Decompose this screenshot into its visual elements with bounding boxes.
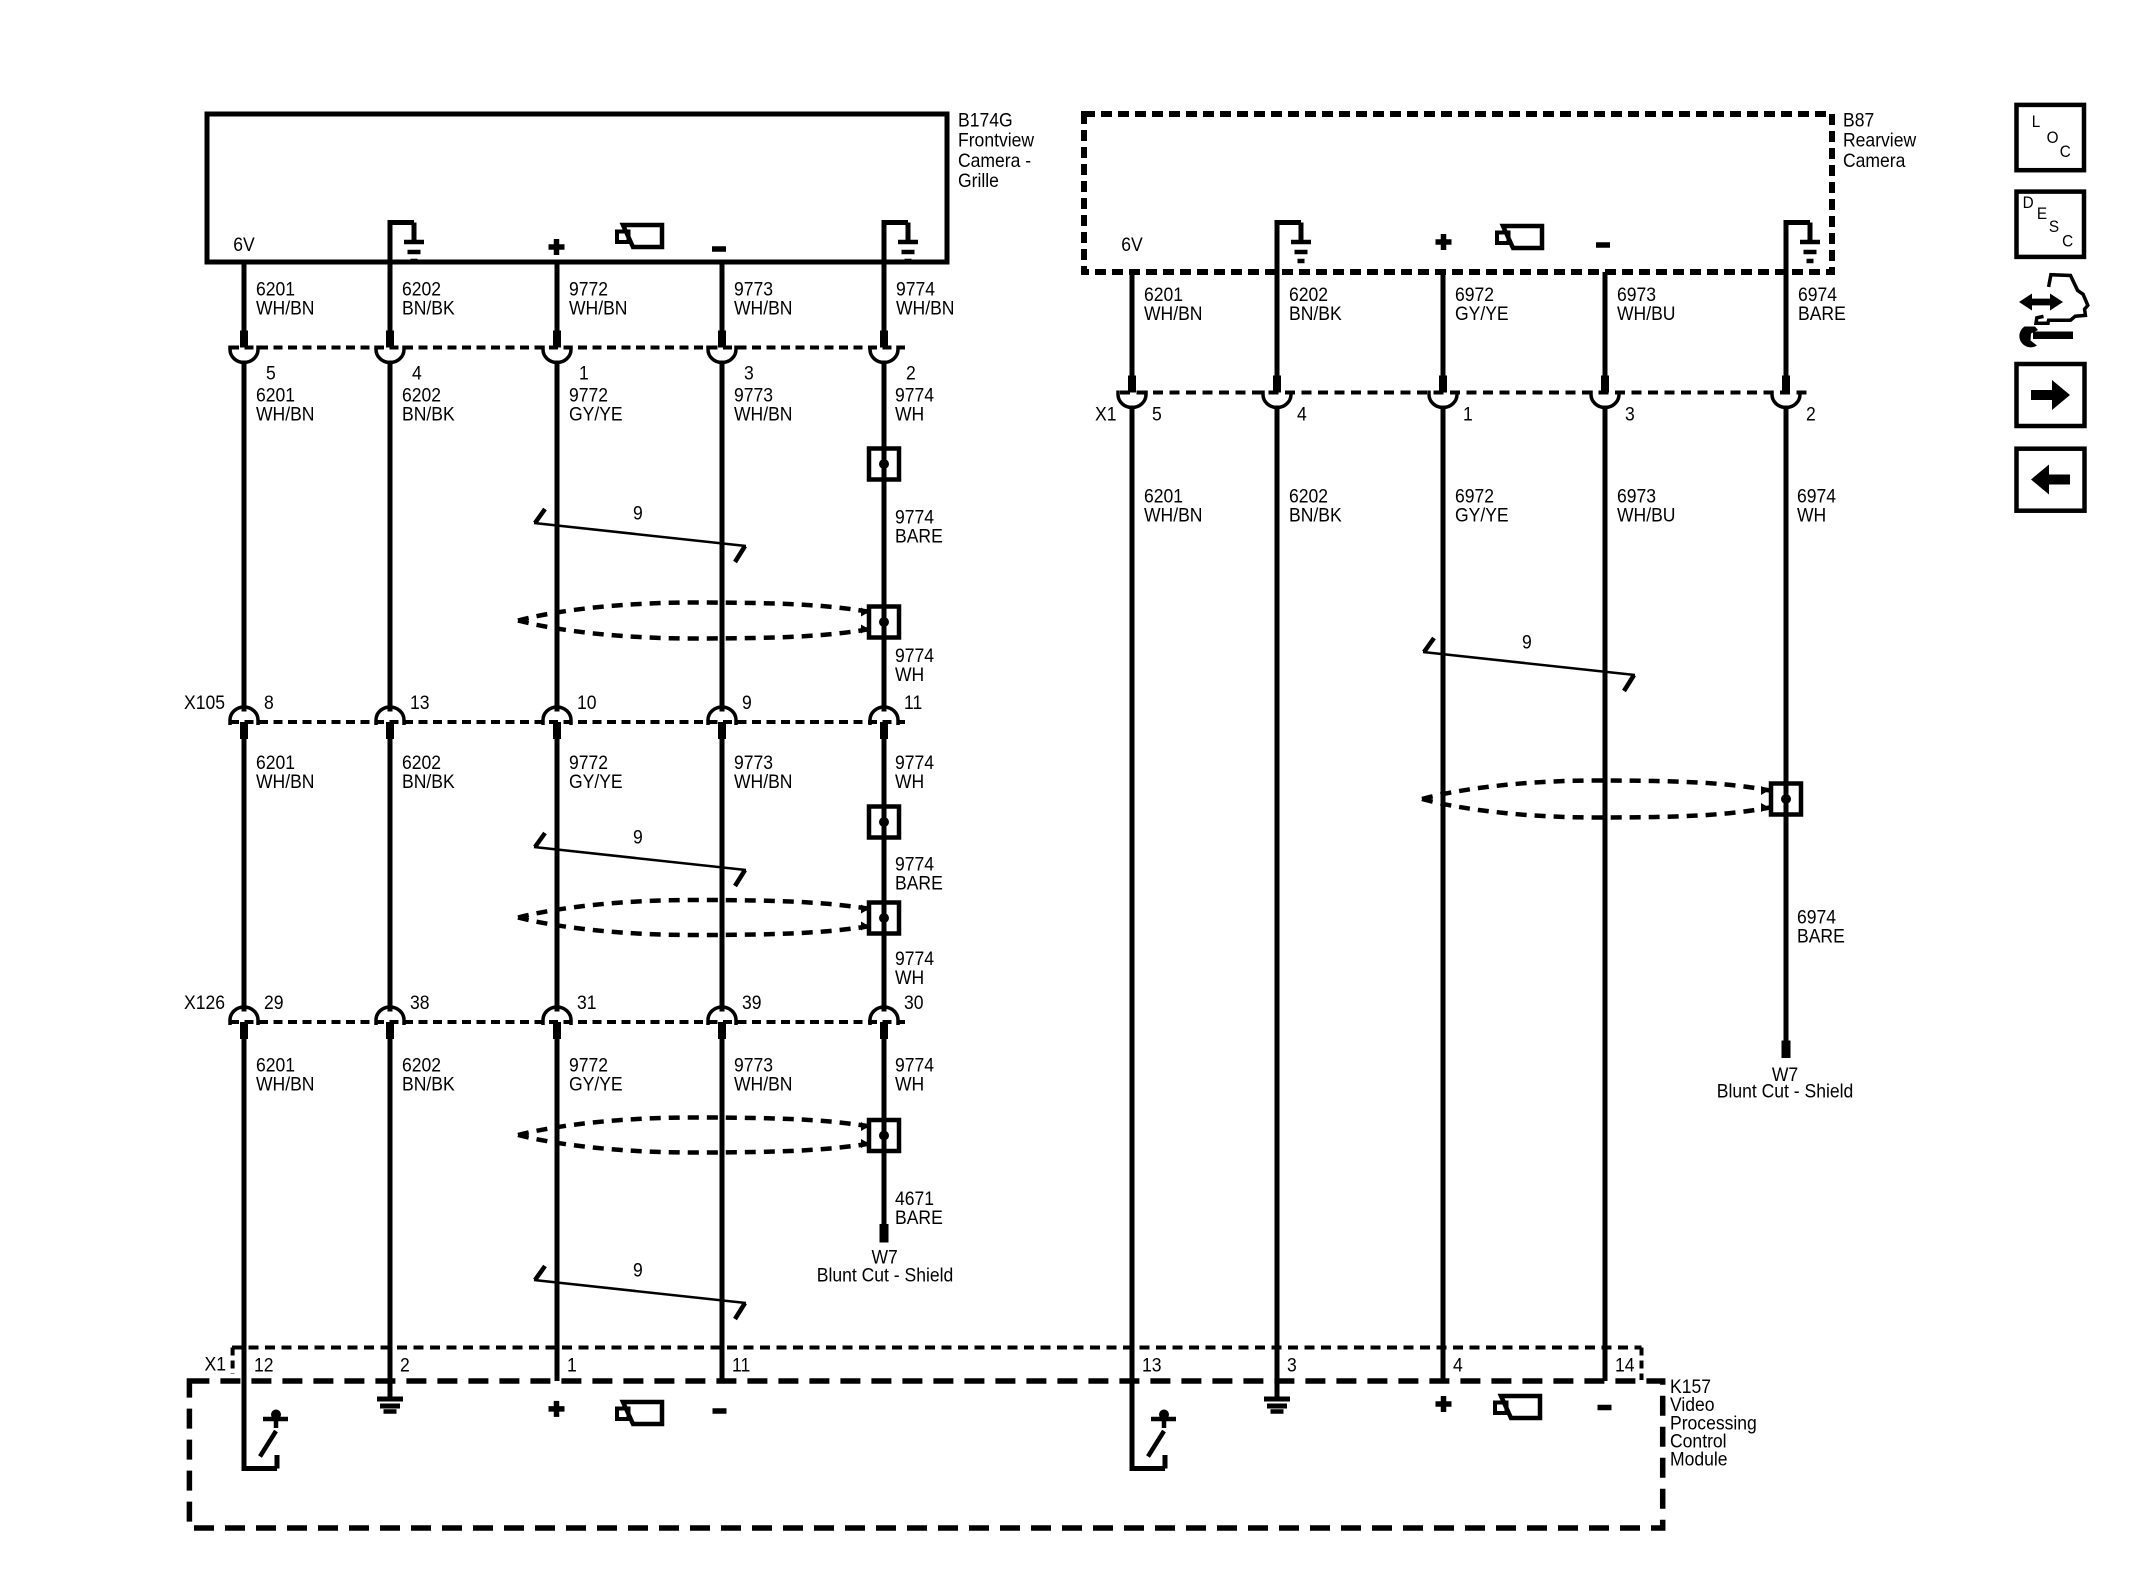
wire label 6202 BN/BK (below X126) xyxy=(402,1053,455,1094)
svg-text:11: 11 xyxy=(904,691,922,713)
wire 6974 WH shield drain below X1 xyxy=(1784,406,1789,1041)
wire label 9773 WH/BN (below pigtail connector) xyxy=(734,384,792,425)
wire 6972 GY/YE X1 to K157 xyxy=(1441,406,1446,1382)
svg-text:11: 11 xyxy=(732,1354,750,1376)
shield termination symbol on 9774 (upper) xyxy=(869,449,899,480)
wire 9774 WH shield drain to X105 xyxy=(882,361,887,712)
connector socket pin 29 (X126) xyxy=(230,1007,258,1039)
connector socket pin 5 (pigtail row) xyxy=(230,346,258,363)
svg-text:X105: X105 xyxy=(184,691,225,713)
svg-text:O: O xyxy=(2047,128,2059,147)
wire label 9774 WH (above X126) xyxy=(895,947,934,988)
svg-text:4: 4 xyxy=(412,362,422,384)
pin label - (module left) xyxy=(713,1408,727,1414)
shield termination symbol on 6974 xyxy=(1771,784,1801,815)
pin number 9 (X105) xyxy=(742,691,752,713)
wire 6202 BN/BK B87 to X1 xyxy=(1275,272,1280,393)
svg-text:C: C xyxy=(2062,232,2073,251)
pin number 14 (module X1) xyxy=(1615,1354,1635,1376)
wire label 9773 WH/BN (below X126) xyxy=(734,1053,792,1094)
svg-text:WH/BN: WH/BN xyxy=(734,770,792,792)
svg-text:GY/YE: GY/YE xyxy=(569,770,623,792)
svg-text:3: 3 xyxy=(744,362,754,384)
pin number 3 (camera X1) xyxy=(1625,403,1635,425)
pin number 11 (module X1) xyxy=(732,1354,750,1376)
svg-text:D: D xyxy=(2023,193,2034,212)
svg-text:30: 30 xyxy=(904,991,924,1013)
shield termination symbol on 9774 (in middle loop) xyxy=(869,903,899,934)
pin number 3 (pigtail row) xyxy=(744,362,754,384)
svg-text:3: 3 xyxy=(1287,1354,1297,1376)
svg-text:BARE: BARE xyxy=(1798,302,1846,324)
camera icon inside module (right) xyxy=(1495,1396,1540,1418)
wire label 9774 BARE (below upper shield symbol) xyxy=(895,506,943,547)
svg-text:Blunt Cut - Shield: Blunt Cut - Shield xyxy=(817,1264,954,1286)
wire 6201 WH/BN to X105 xyxy=(242,361,247,712)
svg-text:WH/BN: WH/BN xyxy=(896,296,954,318)
ground symbol inside module (pin 2) xyxy=(377,1381,403,1412)
wire 9774 WH shield drain X105 to X126 xyxy=(882,739,887,1012)
svg-text:2: 2 xyxy=(1806,403,1816,425)
svg-text:9: 9 xyxy=(633,1259,643,1281)
wire 9772 GY/YE to X105 xyxy=(555,361,560,712)
svg-text:9: 9 xyxy=(633,826,643,848)
wire 6973 WH/BU X1 to K157 xyxy=(1603,406,1608,1382)
twisted shield loop (dashed ellipse, right) xyxy=(1422,781,1770,818)
connector socket pin 5 (camera X1) xyxy=(1118,391,1146,408)
wire 9774 WH/BN B174G to inline connector xyxy=(882,262,887,348)
camera B87 Rearview Camera (component box, dashed) xyxy=(1084,114,1832,272)
pin label - (B87) xyxy=(1596,242,1610,248)
svg-text:WH/BN: WH/BN xyxy=(256,770,314,792)
wire label 9773 WH/BN (below X105) xyxy=(734,751,792,792)
wire label 6973 WH/BU (B87 pigtail) xyxy=(1617,283,1675,324)
svg-text:5: 5 xyxy=(1152,403,1162,425)
ground symbol inside B87 (pin 6202) xyxy=(1275,223,1312,273)
svg-text:13: 13 xyxy=(410,691,430,713)
pin number 10 (X105) xyxy=(577,691,597,713)
wire 6202 BN/BK X105 to X126 xyxy=(388,739,393,1012)
svg-text:Blunt Cut - Shield: Blunt Cut - Shield xyxy=(1717,1080,1854,1102)
pin number 1 (module X1) xyxy=(567,1354,577,1376)
svg-text:WH/BN: WH/BN xyxy=(734,1072,792,1094)
svg-text:2: 2 xyxy=(400,1354,410,1376)
legend icon LOC letters xyxy=(2032,112,2071,161)
connector socket pin 31 (X126) xyxy=(543,1007,571,1039)
wire label 6972 GY/YE (below camera X1) xyxy=(1455,485,1509,526)
connector X105 row xyxy=(230,720,905,724)
svg-text:WH/BN: WH/BN xyxy=(1144,302,1202,324)
svg-text:X1: X1 xyxy=(205,1353,226,1375)
wire label 6201 WH/BN (below X105) xyxy=(256,751,314,792)
pin number 8 (X105) xyxy=(264,691,274,713)
pin number 38 (X126) xyxy=(410,991,430,1013)
svg-text:GY/YE: GY/YE xyxy=(569,403,623,425)
camera icon inside module (left) xyxy=(617,1402,662,1424)
svg-text:BARE: BARE xyxy=(1797,924,1845,946)
wire 6974 BARE B87 to X1 xyxy=(1784,272,1789,393)
pin number 2 (pigtail row) xyxy=(906,362,916,384)
svg-text:WH/BU: WH/BU xyxy=(1617,504,1675,526)
svg-text:WH/BN: WH/BN xyxy=(569,296,627,318)
wire label 9774 WH (above X105) xyxy=(895,644,934,685)
svg-text:Frontview: Frontview xyxy=(958,129,1035,151)
twisted-pair marker 9 (wires 6972/6973) xyxy=(1423,638,1635,691)
pin label 6V (B174G) xyxy=(233,233,255,255)
blunt cut terminal W7 (left) xyxy=(880,1224,889,1243)
wire label 9774 BARE (below middle shield symbol) xyxy=(895,853,943,894)
wire 6972 GY/YE B87 to X1 xyxy=(1441,272,1446,393)
wire label 6202 BN/BK (below pigtail connector) xyxy=(402,384,455,425)
pin label 6V (B87) xyxy=(1121,233,1143,255)
legend icon DESC xyxy=(2017,192,2085,257)
connector X1 row (rearview camera) xyxy=(1120,391,1808,395)
connector label X126 xyxy=(184,991,225,1013)
pin number 13 (X105) xyxy=(410,691,430,713)
svg-text:Camera: Camera xyxy=(1843,149,1906,171)
connector socket pin 3 (camera X1) xyxy=(1591,391,1619,408)
pin number 13 (module X1) xyxy=(1142,1354,1162,1376)
wire 9772 GY/YE X126 to K157 X1 xyxy=(555,1039,560,1381)
wire 9773 WH/BN X105 to X126 xyxy=(720,739,725,1012)
wire label 6202 BN/BK xyxy=(402,277,455,318)
wire label 6201 WH/BN (below camera X1) xyxy=(1144,485,1202,526)
svg-text:GY/YE: GY/YE xyxy=(1455,504,1509,526)
wire label 6974 BARE (right) xyxy=(1797,905,1845,946)
svg-text:6V: 6V xyxy=(1121,233,1143,255)
svg-text:WH: WH xyxy=(1797,504,1826,526)
svg-text:X126: X126 xyxy=(184,991,225,1013)
pin label + (B174G) xyxy=(549,239,565,255)
svg-text:31: 31 xyxy=(577,991,597,1013)
svg-text:6V: 6V xyxy=(233,233,255,255)
svg-text:E: E xyxy=(2037,204,2047,223)
connector socket pin 8 (X105) xyxy=(230,707,258,739)
connector X126 row xyxy=(230,1020,905,1024)
connector socket pin 9 (X105) xyxy=(708,707,736,739)
ground symbol inside module (pin 3) xyxy=(1264,1381,1290,1412)
ground symbol inside B174G (pin 6202) xyxy=(388,223,425,263)
connector socket pin 30 (X126) xyxy=(870,1007,898,1039)
wire 6202 BN/BK B174G to inline connector xyxy=(388,262,393,348)
pin number 12 (module X1) xyxy=(254,1354,274,1376)
connector label X1 (rearview camera) xyxy=(1095,403,1116,425)
svg-text:WH/BU: WH/BU xyxy=(1617,302,1675,324)
svg-text:WH/BN: WH/BN xyxy=(256,1072,314,1094)
wire label 9772 GY/YE (below X105) xyxy=(569,751,623,792)
wire 6201 WH/BN X105 to X126 xyxy=(242,739,247,1012)
connector label X1 (K157 module) xyxy=(205,1353,226,1375)
svg-text:WH: WH xyxy=(895,966,924,988)
pin number 11 (X105) xyxy=(904,691,922,713)
wire label 6202 BN/BK (below camera X1) xyxy=(1289,485,1342,526)
wire 6201 WH/BN X126 to K157 X1 xyxy=(242,1039,247,1381)
pin number 1 (camera X1) xyxy=(1463,403,1473,425)
svg-text:GY/YE: GY/YE xyxy=(569,1072,623,1094)
wire 6973 WH/BU B87 to X1 xyxy=(1603,272,1608,393)
wire label 6972 GY/YE (B87 pigtail) xyxy=(1455,283,1509,324)
svg-text:BARE: BARE xyxy=(895,525,943,547)
connector X1 row (K157 module) xyxy=(232,1348,1642,1381)
wire 6202 BN/BK X126 to K157 X1 xyxy=(388,1039,393,1381)
wire 9772 GY/YE X105 to X126 xyxy=(555,739,560,1012)
wire 9773 WH/BN X126 to K157 X1 xyxy=(720,1039,725,1381)
svg-text:1: 1 xyxy=(1463,403,1473,425)
wire 9773 WH/BN to X105 xyxy=(720,361,725,712)
connector socket pin 4 (camera X1) xyxy=(1263,391,1291,408)
pin label + (module left) xyxy=(549,1401,565,1417)
svg-text:C: C xyxy=(2060,142,2071,161)
connector socket pin 13 (X105) xyxy=(376,707,404,739)
twisted shield loop (dashed ellipse, middle left) xyxy=(518,900,870,935)
svg-text:BN/BK: BN/BK xyxy=(402,1072,455,1094)
connector socket pin 1 (pigtail row) xyxy=(543,346,571,363)
svg-text:9: 9 xyxy=(633,502,643,524)
svg-text:X1: X1 xyxy=(1095,403,1116,425)
label W7 Blunt Cut - Shield (left) xyxy=(817,1246,954,1286)
twisted-pair marker 9 (wires 9772/9773 lower left) xyxy=(534,1266,746,1319)
svg-text:8: 8 xyxy=(264,691,274,713)
svg-text:BARE: BARE xyxy=(895,872,943,894)
label W7 Blunt Cut - Shield (right) xyxy=(1717,1063,1854,1101)
pin number 4 (module X1) xyxy=(1453,1354,1463,1376)
pin number 39 (X126) xyxy=(742,991,762,1013)
connector socket pin 39 (X126) xyxy=(708,1007,736,1039)
svg-text:Rearview: Rearview xyxy=(1843,129,1917,151)
pin number 29 (X126) xyxy=(264,991,284,1013)
wire label 9774 WH/BN xyxy=(896,277,954,318)
svg-text:BN/BK: BN/BK xyxy=(402,770,455,792)
wire 6201 WH/BN B87 to X1 xyxy=(1130,272,1135,393)
pin number 1 (pigtail row) xyxy=(579,362,589,384)
wire label 9774 WH (below X105) xyxy=(895,751,934,792)
pin number 4 (camera X1) xyxy=(1297,403,1307,425)
pin number 3 (module X1) xyxy=(1287,1354,1297,1376)
wire label 6974 WH (below camera X1) xyxy=(1797,485,1836,526)
svg-text:WH: WH xyxy=(895,1072,924,1094)
twisted shield loop (dashed ellipse, lower left) xyxy=(518,1118,870,1153)
legend icon DESC letters xyxy=(2023,193,2074,250)
svg-text:WH: WH xyxy=(895,403,924,425)
svg-text:2: 2 xyxy=(906,362,916,384)
svg-text:38: 38 xyxy=(410,991,430,1013)
wire 6202 BN/BK X1 to K157 xyxy=(1275,406,1280,1382)
svg-text:B174G: B174G xyxy=(958,109,1013,131)
inline connector row (B174G pigtail) xyxy=(230,346,905,350)
pin number 2 (module X1) xyxy=(400,1354,410,1376)
svg-text:L: L xyxy=(2032,112,2041,131)
pin number 5 (camera X1) xyxy=(1152,403,1162,425)
pin number 31 (X126) xyxy=(577,991,597,1013)
connector socket pin 2 (camera X1) xyxy=(1772,391,1800,408)
svg-text:BARE: BARE xyxy=(895,1206,943,1228)
wire label 9774 WH (below pigtail connector) xyxy=(895,384,934,425)
connector socket pin 3 (pigtail row) xyxy=(708,346,736,363)
label K157 Video Processing Control Module xyxy=(1670,1375,1757,1469)
camera icon inside B87 xyxy=(1497,226,1542,248)
connector socket pin 1 (camera X1) xyxy=(1429,391,1457,408)
label B87 Rearview Camera xyxy=(1843,109,1917,171)
svg-text:Module: Module xyxy=(1670,1448,1728,1470)
ground symbol inside B87 (pin 6974) xyxy=(1784,223,1821,273)
pin number 5 (pigtail row) xyxy=(266,362,276,384)
svg-text:1: 1 xyxy=(567,1354,577,1376)
shield termination symbol on 9774 (in lower loop) xyxy=(869,1120,899,1151)
shield termination symbol on 9774 (middle) xyxy=(869,807,899,838)
connector socket pin 38 (X126) xyxy=(376,1007,404,1039)
svg-text:10: 10 xyxy=(577,691,597,713)
switched battery feed symbol (module pin 13) xyxy=(1130,1381,1177,1469)
module K157 Video Processing Control Module (dashed box) xyxy=(189,1381,1662,1528)
pin label + (module right) xyxy=(1436,1396,1452,1412)
svg-text:S: S xyxy=(2049,217,2059,236)
svg-text:WH/BN: WH/BN xyxy=(734,403,792,425)
switched battery feed symbol (module pin 12) xyxy=(242,1381,289,1469)
connector socket pin 2 (pigtail row) xyxy=(870,346,898,363)
svg-text:BN/BK: BN/BK xyxy=(1289,302,1342,324)
svg-text:29: 29 xyxy=(264,991,284,1013)
svg-text:4: 4 xyxy=(1297,403,1307,425)
wire label 6201 WH/BN (below pigtail connector) xyxy=(256,384,314,425)
pin label + (B87) xyxy=(1436,234,1452,250)
connector socket pin 10 (X105) xyxy=(543,707,571,739)
legend icon arrow right xyxy=(2017,364,2085,426)
wire 9772 WH/BN B174G to inline connector xyxy=(555,262,560,348)
legend icon LOC xyxy=(2017,105,2085,170)
wire label 9772 GY/YE (below X126) xyxy=(569,1053,623,1094)
wire 9773 WH/BN B174G to inline connector xyxy=(720,262,725,348)
legend icon vehicle service (double arrow and wrench) xyxy=(2019,275,2088,348)
wire label 6974 BARE (B87 pigtail) xyxy=(1798,283,1846,324)
label B174G Frontview Camera - Grille xyxy=(958,109,1035,192)
svg-text:5: 5 xyxy=(266,362,276,384)
svg-text:WH/BN: WH/BN xyxy=(256,296,314,318)
connector label X105 xyxy=(184,691,225,713)
wire label 4671 BARE xyxy=(895,1187,943,1228)
wire 6201 WH/BN X1 to K157 xyxy=(1130,406,1135,1382)
pin number 30 (X126) xyxy=(904,991,924,1013)
twisted shield loop (dashed ellipse, upper left) xyxy=(518,603,870,639)
pin label - (module right) xyxy=(1598,1405,1612,1411)
connector socket pin 4 (pigtail row) xyxy=(376,346,404,363)
pin number 4 (pigtail row) xyxy=(412,362,422,384)
camera B174G Frontview Camera - Grille (component box) xyxy=(207,114,947,262)
wire label 6201 WH/BN (below X126) xyxy=(256,1053,314,1094)
svg-text:9: 9 xyxy=(1522,631,1532,653)
wire 6202 BN/BK to X105 xyxy=(388,361,393,712)
camera icon inside B174G xyxy=(617,225,662,247)
wire label 6202 BN/BK (B87 pigtail) xyxy=(1289,283,1342,324)
wire label 6201 WH/BN (B87 pigtail) xyxy=(1144,283,1202,324)
svg-text:4: 4 xyxy=(1453,1354,1463,1376)
svg-text:14: 14 xyxy=(1615,1354,1635,1376)
svg-text:B87: B87 xyxy=(1843,109,1874,131)
wire label 6201 WH/BN xyxy=(256,277,314,318)
svg-text:Grille: Grille xyxy=(958,169,999,191)
svg-text:9: 9 xyxy=(742,691,752,713)
svg-text:WH/BN: WH/BN xyxy=(734,296,792,318)
svg-text:3: 3 xyxy=(1625,403,1635,425)
pin label - (B174G) xyxy=(712,246,726,252)
wire label 6202 BN/BK (below X105) xyxy=(402,751,455,792)
wire label 9772 WH/BN xyxy=(569,277,627,318)
svg-text:12: 12 xyxy=(254,1354,274,1376)
svg-text:WH/BN: WH/BN xyxy=(1144,504,1202,526)
svg-text:13: 13 xyxy=(1142,1354,1162,1376)
shield termination symbol on 9774 (in upper loop) xyxy=(869,607,899,638)
svg-text:WH: WH xyxy=(895,770,924,792)
wire label 9773 WH/BN xyxy=(734,277,792,318)
wire 9774 WH shield drain below X126 xyxy=(882,1039,887,1224)
wire label 9774 WH (below X126) xyxy=(895,1053,934,1094)
svg-text:BN/BK: BN/BK xyxy=(1289,504,1342,526)
svg-text:WH/BN: WH/BN xyxy=(256,403,314,425)
svg-text:39: 39 xyxy=(742,991,762,1013)
ground symbol inside B174G (pin 9774) xyxy=(882,223,919,263)
connector socket pin 11 (X105) xyxy=(870,707,898,739)
svg-text:Camera -: Camera - xyxy=(958,149,1031,171)
blunt cut terminal W7 (right) xyxy=(1782,1041,1791,1059)
svg-text:WH: WH xyxy=(895,663,924,685)
svg-text:GY/YE: GY/YE xyxy=(1455,302,1509,324)
wire label 6973 WH/BU (below camera X1) xyxy=(1617,485,1675,526)
legend icon arrow left xyxy=(2017,449,2085,511)
wire label 9772 GY/YE (below pigtail connector) xyxy=(569,384,623,425)
pin number 2 (camera X1) xyxy=(1806,403,1816,425)
svg-text:BN/BK: BN/BK xyxy=(402,403,455,425)
twisted-pair marker 9 (wires 9772/9773 upper left) xyxy=(534,509,746,562)
twisted-pair marker 9 (wires 9772/9773 middle left) xyxy=(534,833,746,886)
wire 6201 WH/BN B174G to inline connector xyxy=(242,262,247,348)
svg-text:1: 1 xyxy=(579,362,589,384)
svg-text:BN/BK: BN/BK xyxy=(402,296,455,318)
